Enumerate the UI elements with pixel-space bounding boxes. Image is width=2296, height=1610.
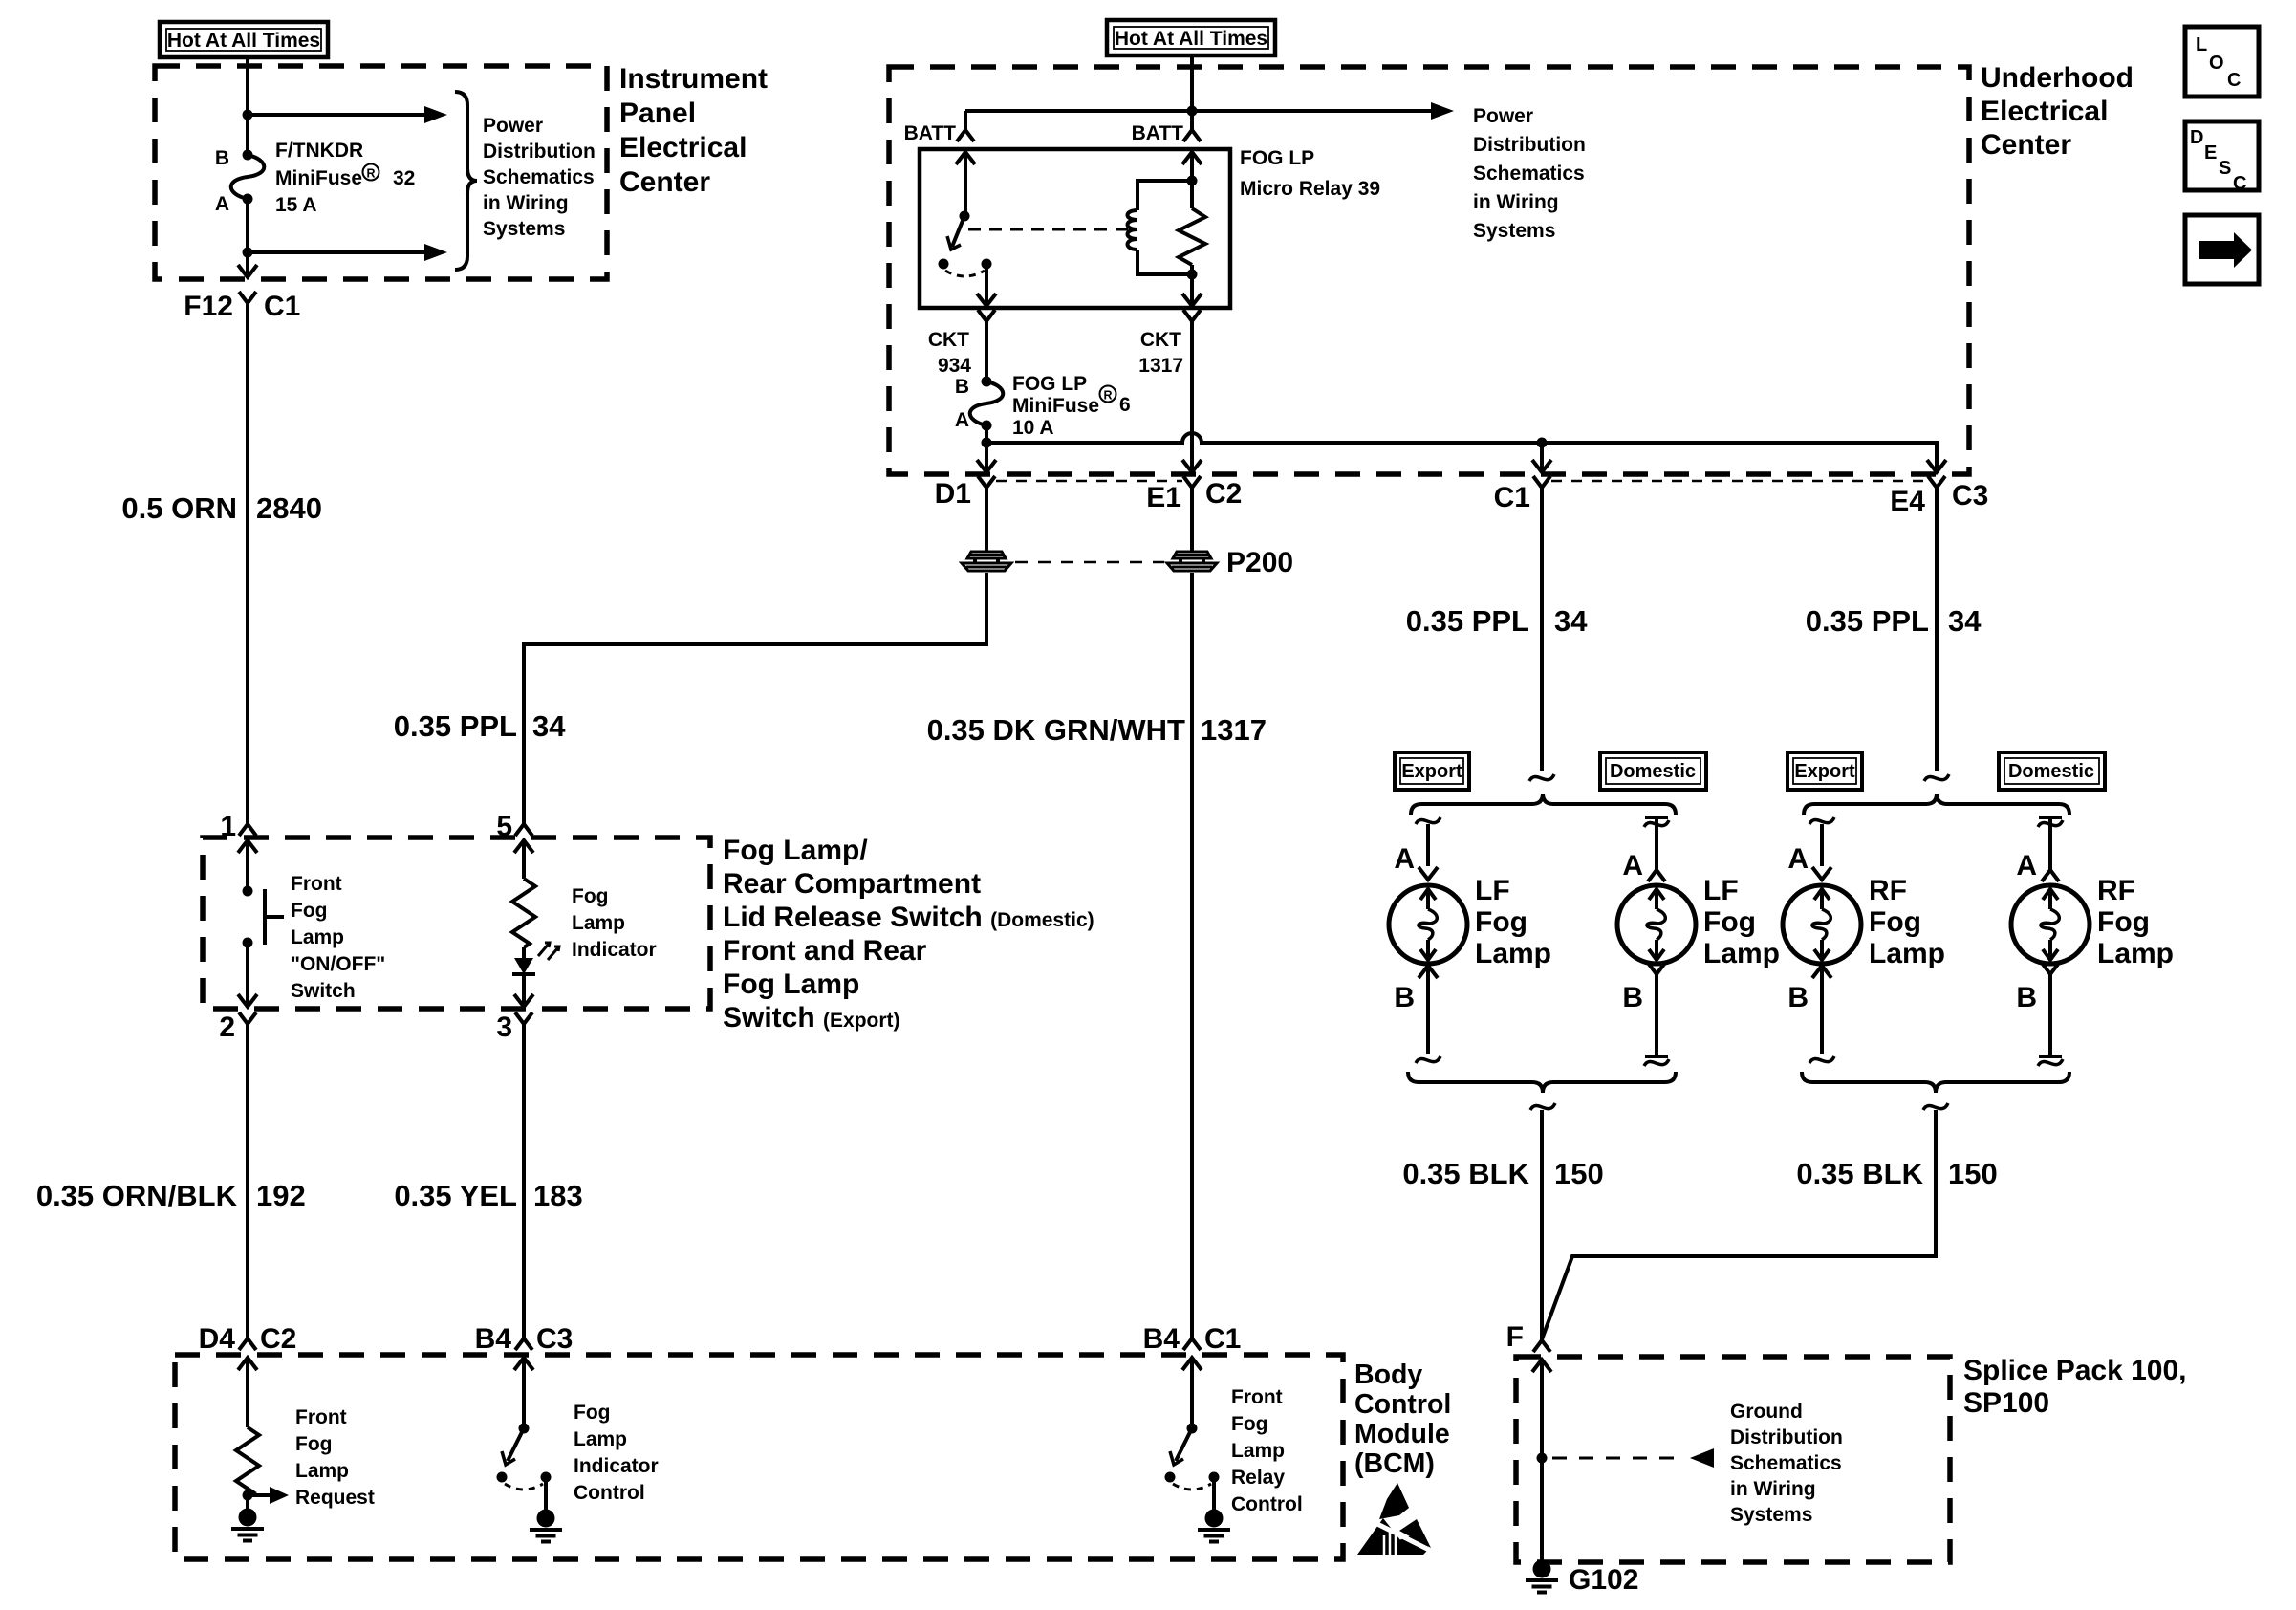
svg-text:BATT: BATT [1132,122,1184,144]
wire: LF Domestic branch [1655,817,1658,865]
svg-text:Electrical: Electrical [1981,96,2108,127]
wire inside to switch contact [246,840,249,891]
lamp: RF Fog Lamp (Domestic) [2011,885,2090,964]
svg-text:Electrical: Electrical [619,132,747,163]
svg-text:Power: Power [483,115,543,137]
svg-text:2840: 2840 [256,491,322,525]
svg-text:0.35 PPL: 0.35 PPL [394,709,517,743]
svg-text:10 A: 10 A [1012,417,1054,439]
node: coil/resistor bottom junction [1187,270,1198,280]
splice pack dashed box [1516,1357,1950,1562]
svg-text:1317: 1317 [1201,713,1267,747]
svg-text:Splice Pack 100,: Splice Pack 100, [1963,1355,2187,1386]
terminal arrow from RF Export lamp B [1812,966,1831,978]
connector E1 / C2 [1183,476,1201,502]
ground (request) [246,1495,249,1509]
svg-text:"ON/OFF": "ON/OFF" [291,953,385,975]
node: relay stationary contact [939,259,949,270]
wire to indicator resistor [522,840,526,879]
svg-text:Fog: Fog [2097,906,2150,938]
connector P200 (right half) [1167,552,1217,571]
wire: battery bus with arrow to Power Distribution [965,109,1433,113]
connector fork at RF Domestic lamp B [2042,963,2059,989]
dashed line P200 [1015,561,1164,564]
connector F12 / C1 [239,292,256,317]
svg-text:in Wiring: in Wiring [1730,1478,1816,1500]
node: junction upper [243,110,253,120]
svg-text:BATT: BATT [904,122,957,144]
wire to fuse 6 [985,336,988,381]
fuse FOG LP MiniFuse 6 [970,377,1004,431]
svg-text:5: 5 [496,811,512,842]
terminal arrow into LF Export lamp [1419,867,1438,880]
svg-text:MiniFuse: MiniFuse [275,167,362,189]
wire: RF Export branch [1820,824,1824,866]
connector E4 / C3 [1928,476,1945,502]
svg-text:Fog: Fog [1703,906,1756,938]
svg-text:Fog: Fog [1475,906,1527,938]
svg-text:B: B [1787,982,1809,1013]
svg-text:B: B [1622,982,1643,1013]
svg-text:R: R [1104,389,1113,402]
svg-text:B4: B4 [475,1323,512,1355]
arrow entering switch box pin1 [238,840,257,853]
svg-text:FOG LP: FOG LP [1012,373,1087,395]
svg-text:C: C [2227,70,2241,91]
wire: relay output to box bottom [985,264,988,305]
svg-text:Center: Center [1981,129,2071,161]
wire break: LF Export branch top [1416,817,1440,824]
svg-text:Relay: Relay [1231,1467,1285,1489]
svg-text:Hot At All Times: Hot At All Times [167,30,320,52]
arrow: E4 exit [1927,460,1946,472]
wire stub: LF Domestic branch bottom [1645,1055,1668,1058]
svg-text:Front and Rear: Front and Rear [723,935,927,967]
wire: 0.35 BLK 150 (RF) to splice [1542,1110,1936,1339]
wire break: RF Export branch bottom [1809,1056,1834,1063]
svg-text:C1: C1 [1204,1323,1241,1355]
wire break: RF Domestic branch bottom [2038,1059,2063,1066]
arrow: relay coil leg to box bottom [1182,294,1202,306]
wire: D1 down to P200 [985,502,988,552]
wire from lower contact to box bottom [246,943,249,1006]
brace: split to two lamp variants (RF) [1804,794,2069,815]
Instrument Panel Electrical Center dashed box [155,66,607,279]
wire: RF Export lamp B down [1820,966,1824,1054]
svg-text:192: 192 [256,1179,306,1212]
svg-text:Indicator: Indicator [572,939,657,961]
svg-text:D: D [2190,127,2203,148]
wire: LF Export branch [1426,824,1430,866]
svg-text:L: L [2196,34,2207,55]
wire break at split feed [1529,774,1554,781]
svg-text:RF: RF [2097,875,2135,906]
svg-text:1317: 1317 [1138,355,1183,377]
wire break: LF Domestic branch bottom [1644,1059,1669,1066]
svg-text:in Wiring: in Wiring [483,192,569,214]
svg-text:Request: Request [295,1487,375,1509]
wire stub: LF Domestic branch top [1645,816,1668,819]
svg-text:B: B [2016,982,2037,1013]
dashed connector line D1-E1 [996,480,1182,483]
svg-text:Control: Control [1354,1389,1451,1420]
svg-text:34: 34 [532,709,566,743]
arrow: D1 exit [977,460,996,472]
svg-text:RF: RF [1869,875,1907,906]
svg-text:Micro Relay 39: Micro Relay 39 [1240,178,1380,200]
connector CKT 934 below relay [978,310,995,336]
svg-text:E1: E1 [1146,482,1181,513]
Hot At All Times box (center) [1107,20,1275,55]
node: relay output contact [982,259,992,270]
svg-text:B: B [215,147,229,169]
svg-text:Hot At All Times: Hot At All Times [1115,28,1267,50]
svg-text:Fog: Fog [1231,1413,1267,1435]
ESD symbol [1357,1483,1431,1555]
BCM dashed box [175,1355,1343,1559]
svg-text:2: 2 [219,1012,235,1043]
svg-text:Control: Control [574,1482,645,1504]
svg-text:O: O [2209,53,2224,74]
fuse F/TNKDR MiniFuse 32 [231,150,265,205]
wire arrow to Power Distribution (upper) [248,113,426,117]
svg-text:Underhood: Underhood [1981,62,2134,94]
Underhood Electrical Center dashed box [889,67,1969,474]
relay resistor (parallel with coil) [1182,152,1202,164]
svg-text:C2: C2 [260,1323,296,1355]
arrow: E1 exit [1182,460,1202,472]
svg-text:E: E [2204,142,2217,163]
LED light arrows [538,943,559,960]
ground G102 [1526,1560,1558,1593]
lamp: LF Fog Lamp (Domestic) [1617,885,1696,964]
svg-text:C2: C2 [1205,478,1242,510]
svg-text:3: 3 [496,1012,512,1043]
connector C1 (right) [1533,476,1550,502]
circuit: Front Fog Lamp Request [238,1358,257,1370]
arrow: C1 exit [1532,460,1551,472]
resistor: request [236,1427,259,1495]
connector CKT 1317 below relay [1183,310,1201,336]
wire: 0.5 ORN 2840 down to switch pin 1 [246,317,249,819]
svg-text:150: 150 [1554,1157,1604,1190]
svg-text:A: A [1394,843,1415,875]
svg-text:in Wiring: in Wiring [1473,191,1559,213]
svg-text:Domestic: Domestic [1610,761,1696,782]
svg-text:E4: E4 [1890,486,1925,517]
connector D1 [978,476,995,502]
LED indicator diode [514,958,533,974]
switch S1 Front Fog Lamp ON/OFF (pushbutton) [243,886,253,897]
node: junction lower [243,248,253,258]
connector fork at LF Domestic lamp A [1648,856,1665,881]
svg-text:Body: Body [1354,1360,1422,1390]
svg-text:C3: C3 [1952,480,1988,511]
svg-text:Distribution: Distribution [1730,1426,1843,1448]
svg-text:CKT: CKT [1140,329,1181,351]
Hot At All Times box (left) [160,22,328,57]
svg-text:Fog Lamp/: Fog Lamp/ [723,835,868,866]
svg-text:Systems: Systems [483,218,565,240]
svg-text:Lamp: Lamp [1703,938,1780,969]
wire: splice to ground [1532,1360,1551,1372]
svg-text:32: 32 [393,167,415,189]
dashed connector line C1-E4 [1551,480,1927,483]
wire break: RF Export branch top [1809,817,1834,824]
dashed arc: relay contact travel [945,271,985,276]
svg-text:0.35 BLK: 0.35 BLK [1402,1157,1529,1190]
connector fork at LF Domestic lamp B [1648,963,1665,989]
dashed link: relay coil to switch [968,228,1128,231]
svg-text:Lamp: Lamp [1475,938,1551,969]
svg-text:G102: G102 [1569,1564,1638,1596]
brace: lamp variants merge (RF) [1802,1072,2069,1093]
resistor: fog lamp indicator [512,879,535,947]
svg-text:B: B [955,376,969,398]
svg-text:Export: Export [1794,761,1855,782]
svg-text:Systems: Systems [1730,1504,1812,1526]
svg-text:Lamp: Lamp [291,926,344,948]
svg-text:Front: Front [295,1406,347,1428]
svg-text:Domestic: Domestic [2008,761,2094,782]
node: bus junction [1187,106,1198,117]
arrow exiting IP box bottom [238,265,257,277]
wire: HAAT down through IP box to fuse B [246,57,249,155]
svg-text:Module: Module [1354,1419,1450,1449]
circuit: Front Fog Lamp Relay Control [1182,1358,1202,1370]
svg-text:Export: Export [1401,761,1462,782]
svg-text:Indicator: Indicator [574,1455,659,1477]
lamp: RF Fog Lamp (Export) [1783,885,1861,964]
svg-text:FOG LP: FOG LP [1240,147,1314,169]
svg-text:D4: D4 [199,1323,236,1355]
svg-text:Lamp: Lamp [2097,938,2174,969]
connector P200 (left half) [962,552,1011,571]
svg-text:LF: LF [1475,875,1510,906]
svg-text:Fog: Fog [295,1433,332,1455]
Export tag box (LF) [1395,752,1469,790]
svg-text:Lamp: Lamp [574,1428,627,1450]
svg-text:(BCM): (BCM) [1354,1448,1435,1479]
svg-text:C: C [2233,173,2246,194]
svg-text:Distribution: Distribution [1473,134,1586,156]
svg-text:Fog Lamp: Fog Lamp [723,968,859,1000]
svg-text:15 A: 15 A [275,194,317,216]
svg-text:B4: B4 [1143,1323,1180,1355]
wire: bus down to BATT left [964,111,967,121]
svg-text:183: 183 [533,1179,583,1212]
relay FOG LP Micro Relay 39 box [920,149,1230,308]
svg-text:Lamp: Lamp [1869,938,1945,969]
svg-text:F: F [1506,1321,1524,1353]
svg-text:Distribution: Distribution [483,141,596,163]
lamp: LF Fog Lamp (Export) [1389,885,1467,964]
svg-text:34: 34 [1948,604,1982,638]
svg-text:0.35 PPL: 0.35 PPL [1406,604,1529,638]
svg-text:Fog: Fog [574,1402,610,1424]
svg-text:Lamp: Lamp [1231,1440,1285,1462]
arrow entering pin 5 [514,840,533,853]
wire: LF Domestic lamp B down [1655,989,1658,1056]
wire: 0.35 BLK 150 (LF) down to splice F [1540,1110,1544,1338]
svg-text:0.35 ORN/BLK: 0.35 ORN/BLK [36,1179,238,1212]
svg-text:0.35 YEL: 0.35 YEL [394,1179,517,1212]
svg-text:B: B [1394,982,1415,1013]
svg-text:P200: P200 [1226,547,1293,578]
svg-text:Front: Front [1231,1386,1283,1408]
wire: P200 right / 0.35 DK GRN/WHT 1317 down to BCM [1190,502,1194,1334]
wire: fused feed bus to right lamps (hops over 1317 wire) [985,425,988,471]
DESC box [2185,121,2259,194]
wire: P200 left to switch pin 5 [524,573,986,819]
svg-text:CKT: CKT [928,329,969,351]
svg-text:0.35 BLK: 0.35 BLK [1796,1157,1923,1190]
svg-text:Schematics: Schematics [1473,163,1585,185]
wire: fuse A down to box bottom [246,199,249,276]
svg-text:Ground: Ground [1730,1401,1803,1423]
wire break: RF Domestic branch top [2038,820,2063,827]
switch dashed box [203,838,710,1009]
LOC box [2185,27,2259,97]
svg-text:S: S [2219,158,2231,179]
terminal arrow from LF Export lamp B [1419,966,1438,978]
connector fork at RF Domestic lamp A [2042,856,2059,881]
svg-text:MiniFuse: MiniFuse [1012,395,1099,417]
wire: CKT1317 down to box bottom [1190,336,1194,470]
brace: lamp variants merge [1408,1072,1676,1093]
svg-text:Lamp: Lamp [572,912,625,934]
dashed link to Ground Distribution with arrow [1552,1457,1686,1460]
wire: E4 0.35 PPL 34 down to lamp split [1935,502,1939,771]
svg-text:A: A [1622,850,1643,881]
wire: C1 0.35 PPL 34 down to lamp split [1540,502,1544,771]
svg-text:Instrument: Instrument [619,63,768,95]
svg-text:150: 150 [1948,1157,1998,1190]
svg-text:Panel: Panel [619,98,696,129]
Export tag box (RF) [1787,752,1862,790]
svg-text:34: 34 [1554,604,1588,638]
wire: HAAT2 down to bus [1190,55,1194,111]
wire: 0.35 ORN/BLK 192 [246,1038,249,1334]
relay switch arm (K39 contacts) [956,152,975,164]
wire break: LF Domestic branch top [1644,820,1669,827]
wire: 0.35 YEL 183 [522,1038,526,1334]
brace: split to two lamp variants [1411,794,1676,815]
node: splice junction [1537,1453,1548,1464]
svg-text:Front: Front [291,873,342,895]
wire: RF Domestic lamp B down [2048,989,2052,1056]
svg-text:R: R [367,167,376,181]
terminal arrow into RF Export lamp [1812,867,1831,880]
wire: LF Export lamp B down [1426,966,1430,1054]
svg-text:C1: C1 [1494,482,1530,513]
svg-text:0.35 PPL: 0.35 PPL [1806,604,1929,638]
svg-text:D1: D1 [935,478,971,510]
svg-text:Fog: Fog [1869,906,1921,938]
svg-text:F12: F12 [184,291,233,322]
wire: BATT right stub [1190,111,1194,121]
svg-text:LF: LF [1703,875,1739,906]
svg-text:SP100: SP100 [1963,1387,2049,1419]
wire: RF Domestic branch [2048,817,2052,865]
svg-text:Control: Control [1231,1493,1303,1515]
svg-text:Lamp: Lamp [295,1460,349,1482]
svg-text:Rear Compartment: Rear Compartment [723,868,981,900]
arrow: request output [248,1493,271,1497]
svg-text:C3: C3 [536,1323,573,1355]
svg-text:Fog: Fog [572,885,608,907]
svg-text:0.5 ORN: 0.5 ORN [121,491,237,525]
svg-text:Schematics: Schematics [483,166,595,188]
relay coil [1137,181,1192,210]
svg-text:Fog: Fog [291,900,327,922]
brace for Power Distribution [455,92,477,270]
wire arrow to Power Distribution (lower) [248,250,426,254]
wire stub: RF Domestic branch top [2039,816,2062,819]
svg-text:Power: Power [1473,105,1533,127]
svg-text:Systems: Systems [1473,220,1555,242]
circuit: Fog Lamp Indicator Control [514,1358,533,1370]
svg-text:A: A [955,409,969,431]
svg-text:A: A [215,193,229,215]
svg-text:0.35 DK GRN/WHT: 0.35 DK GRN/WHT [927,713,1185,747]
wire break: LF Export branch bottom [1416,1056,1440,1063]
svg-text:F/TNKDR: F/TNKDR [275,140,363,162]
Domestic tag box (LF) [1600,752,1706,790]
svg-text:Switch: Switch [291,980,356,1002]
node: coil/resistor top junction [1187,176,1198,186]
svg-text:Schematics: Schematics [1730,1452,1842,1474]
svg-text:A: A [2016,850,2037,881]
forward arrow box [2185,215,2259,284]
wire stub: RF Domestic branch bottom [2039,1055,2062,1058]
svg-text:934: 934 [938,355,971,377]
Domestic tag box (RF) [1999,752,2105,790]
svg-text:6: 6 [1119,394,1131,416]
svg-text:A: A [1787,843,1809,875]
svg-text:C1: C1 [264,291,300,322]
svg-text:Center: Center [619,166,710,198]
